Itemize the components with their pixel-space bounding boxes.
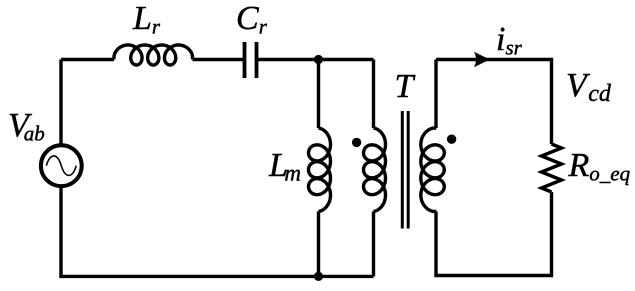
svg-text:Vab: Vab (8, 107, 45, 146)
svg-text:Cr: Cr (236, 0, 268, 39)
svg-text:T: T (395, 68, 416, 105)
svg-text:Lr: Lr (132, 0, 161, 39)
svg-text:isr: isr (496, 21, 523, 60)
svg-text:Lm: Lm (268, 147, 301, 186)
svg-text:Vcd: Vcd (566, 67, 612, 107)
svg-text:Ro_eq: Ro_eq (568, 147, 631, 186)
